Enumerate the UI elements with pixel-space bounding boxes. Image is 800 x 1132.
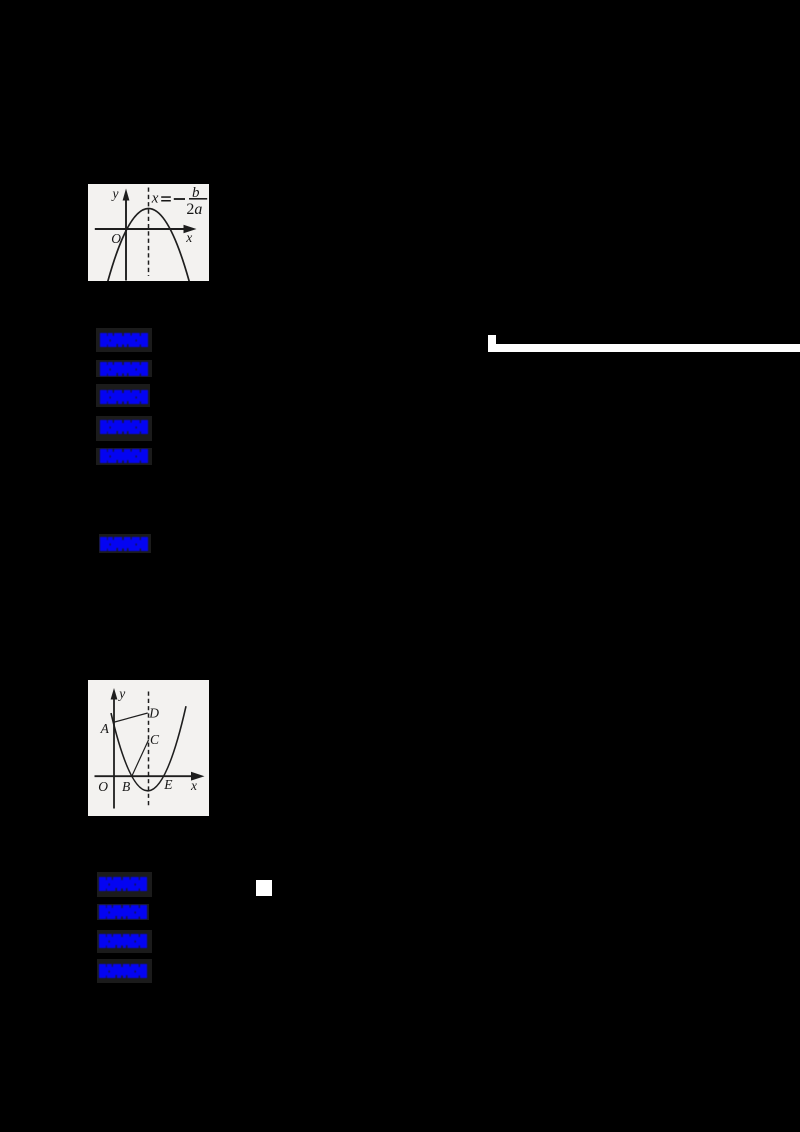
svg-text:y: y [111,186,119,201]
svg-text:O: O [111,231,121,246]
svg-text:b: b [192,185,200,201]
svg-text:x: x [185,230,192,245]
svg-text:O: O [98,778,108,793]
svg-text:y: y [117,686,125,701]
svg-text:D: D [148,705,159,720]
svg-text:A: A [100,720,110,735]
svg-text:B: B [122,778,130,793]
svg-text:x: x [151,191,159,207]
svg-text:x: x [190,778,197,793]
svg-text:E: E [163,777,173,792]
svg-text:C: C [150,731,160,746]
svg-text:2a: 2a [186,201,202,218]
